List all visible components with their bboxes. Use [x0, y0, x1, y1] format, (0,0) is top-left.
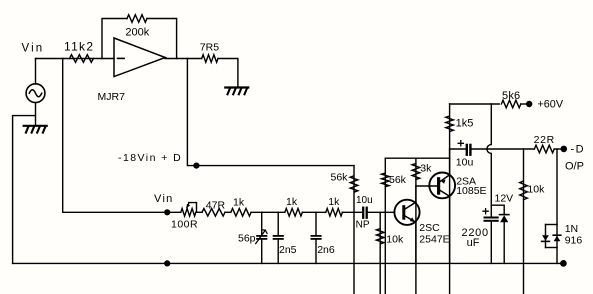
wire diode box to rail — [556, 225, 558, 264]
transistor Q2 2SA1085E — [429, 173, 455, 199]
svg-text:56k: 56k — [331, 172, 349, 184]
wire 7R5 to ground — [218, 59, 238, 88]
wire node B — [251, 211, 285, 213]
svg-text:-D: -D — [571, 144, 586, 156]
wire O/P down — [556, 149, 558, 225]
wire output — [165, 58, 202, 60]
op-amp U1 MJR7 — [114, 38, 165, 77]
wire pot-47R — [197, 211, 203, 213]
svg-text:3k: 3k — [420, 162, 432, 174]
junction dot A — [193, 163, 199, 169]
svg-text:2n5: 2n5 — [279, 244, 297, 256]
svg-text:100R: 100R — [171, 219, 198, 231]
svg-text:1k: 1k — [286, 196, 298, 208]
resistor R5 1k — [231, 209, 251, 217]
resistor R10 56k — [382, 158, 390, 294]
wire diode box top — [546, 224, 558, 226]
svg-text:-18Vin + D: -18Vin + D — [118, 152, 182, 164]
svg-text:7R5: 7R5 — [200, 41, 219, 53]
capacitor C1 56p (trimmer) — [256, 212, 267, 263]
svg-text:uF: uF — [467, 237, 480, 249]
svg-text:10u: 10u — [456, 156, 474, 168]
svg-text:1k: 1k — [233, 196, 245, 208]
wire source bottom — [35, 103, 37, 126]
wire supply top — [450, 103, 500, 105]
resistor R8 56k — [350, 166, 358, 294]
wire feedback right — [147, 19, 177, 59]
resistor R2 200k — [127, 15, 147, 23]
terminal +60V — [526, 101, 532, 107]
svg-text:Vin: Vin — [22, 43, 45, 55]
svg-text:2547E: 2547E — [419, 234, 449, 246]
wire bias top — [385, 157, 449, 159]
svg-text:1N: 1N — [565, 223, 578, 235]
svg-text:10k: 10k — [527, 183, 545, 195]
wire Q1 collector — [415, 186, 417, 202]
resistor R9 10k — [376, 212, 384, 294]
svg-text:1085E: 1085E — [456, 185, 486, 197]
svg-text:11k2: 11k2 — [64, 39, 94, 53]
svg-text:47R: 47R — [206, 200, 226, 212]
resistor R7 1k — [326, 209, 343, 217]
svg-text:2n6: 2n6 — [317, 244, 335, 256]
diode D2 1N916 (down) — [542, 235, 550, 241]
wire bottom common rail — [13, 262, 564, 264]
svg-text:2SC: 2SC — [419, 222, 440, 234]
wire zener branch — [491, 205, 504, 214]
wire source top — [35, 59, 37, 85]
wire diode box bottom — [546, 247, 558, 249]
junction dot rail left — [164, 260, 170, 266]
svg-text:+60V: +60V — [538, 99, 564, 111]
svg-text:Vin: Vin — [154, 193, 174, 205]
svg-text:200k: 200k — [125, 26, 149, 38]
resistor R6 1k — [285, 209, 303, 217]
svg-text:NP: NP — [356, 220, 370, 231]
resistor R11 3k — [412, 158, 420, 294]
wire lower Vin feed — [63, 211, 181, 213]
wire 47R-1k — [225, 211, 231, 213]
svg-text:12V: 12V — [495, 192, 514, 204]
zener D1 12V — [500, 215, 509, 264]
terminal O/P dot — [561, 146, 568, 153]
capacitor C3 2n6 — [311, 212, 320, 263]
wire 22R to O/P — [554, 148, 563, 150]
wire output line — [472, 148, 535, 150]
svg-text:56p: 56p — [238, 232, 256, 244]
ground G1 — [24, 126, 47, 133]
wire Q2 base — [416, 185, 437, 187]
wire Q2 collector down — [449, 196, 451, 263]
capacitor C2 2n5 — [274, 212, 283, 263]
capacitor C6 2200uF — [483, 209, 498, 264]
wire input branch down — [62, 59, 64, 213]
svg-text:916: 916 — [565, 235, 583, 247]
capacitor C5 10u (+) — [450, 141, 471, 155]
junction dot rail right — [560, 260, 567, 267]
wire hop (supply crossing) — [487, 104, 491, 217]
svg-text:1k: 1k — [328, 196, 340, 208]
svg-text:O/P: O/P — [565, 161, 584, 173]
ground G2 — [225, 88, 248, 95]
svg-text:56k: 56k — [389, 174, 407, 186]
svg-text:10u: 10u — [356, 195, 373, 206]
junction dot Vin lower — [164, 209, 170, 215]
resistor R12 1k5 — [446, 104, 454, 294]
wire feedback left — [102, 19, 127, 59]
resistor R1 11k2 — [70, 55, 94, 63]
svg-text:10k: 10k — [386, 233, 404, 245]
wire Q1 emitter — [414, 222, 417, 264]
wire diode box left — [545, 225, 547, 248]
resistor R15 22R — [534, 145, 554, 153]
wire 5k6 to +60V — [521, 103, 529, 105]
transistor Q1 2SC2547E — [394, 200, 419, 225]
resistor R3 7R5 — [202, 55, 218, 63]
diode D3 1N916 (up) — [553, 235, 561, 241]
wire Q2 emitter up — [449, 149, 451, 175]
wire to common rail — [13, 116, 36, 264]
wire -18Vin+D — [187, 59, 354, 166]
svg-text:MJR7: MJR7 — [98, 91, 126, 103]
resistor R14 10k — [520, 149, 528, 294]
capacitor C4 10u NP — [363, 208, 394, 218]
node Vin top / wire — [36, 58, 115, 60]
svg-text:5k6: 5k6 — [502, 90, 520, 102]
svg-text:1k5: 1k5 — [456, 117, 474, 129]
generator V1 (sine source) — [26, 84, 45, 103]
wire node D — [342, 211, 362, 213]
wire node C — [302, 211, 325, 213]
resistor R13 5k6 — [501, 100, 520, 108]
potentiometer VR1 100R — [181, 203, 197, 217]
svg-text:22R: 22R — [534, 134, 555, 146]
resistor R4 47R — [202, 209, 225, 217]
